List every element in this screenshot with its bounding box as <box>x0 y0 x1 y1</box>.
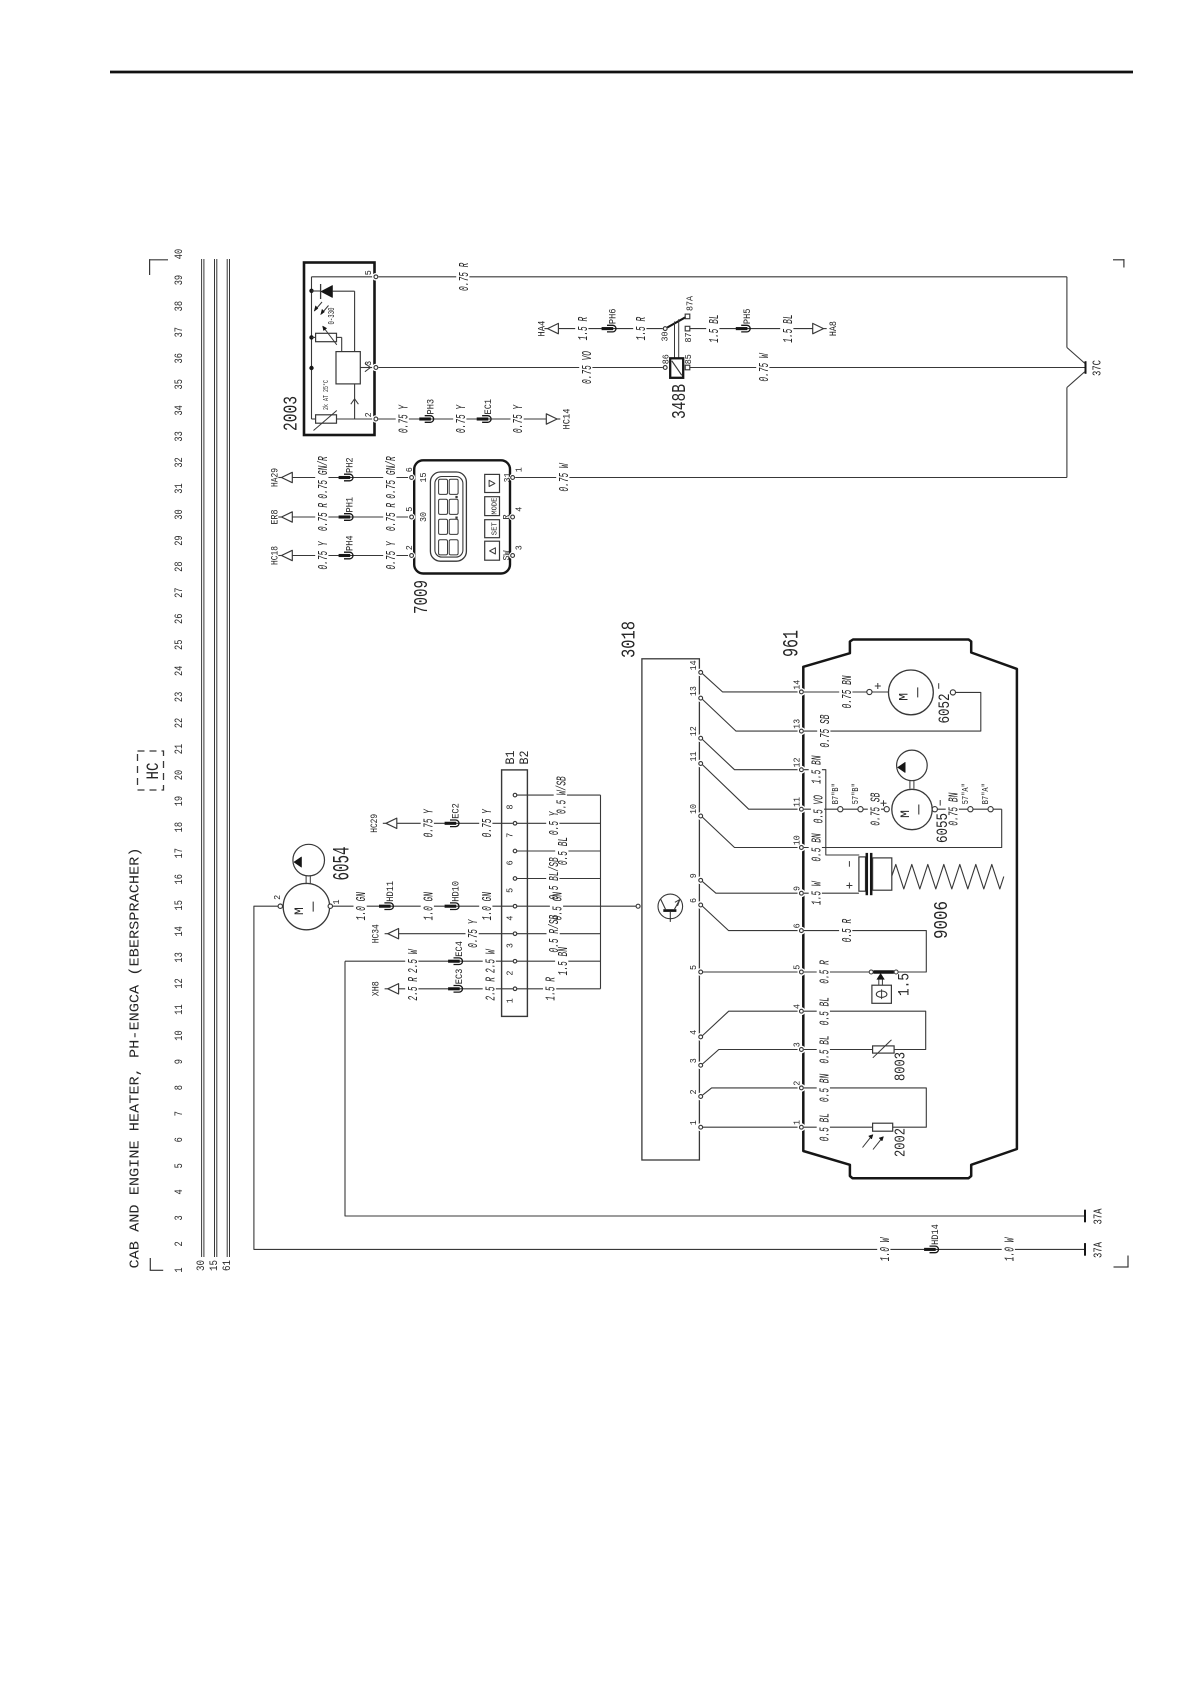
bus 15 feed line <box>215 259 217 1257</box>
connector PH1 <box>344 514 353 521</box>
svg-text:0.5 BN: 0.5 BN <box>809 833 825 862</box>
wire 961:12 to glow plug 9006 minus <box>804 770 859 855</box>
node 37C collector <box>1067 277 1086 478</box>
961 pin 12 <box>798 766 806 774</box>
svg-text:PH2: PH2 <box>345 457 357 473</box>
heater unit 6054 motor <box>283 883 329 929</box>
relay 348B <box>663 314 690 378</box>
wire loop to 961:10 <box>804 809 1002 847</box>
bus 61 feed line <box>227 259 229 1257</box>
svg-text:B2: B2 <box>517 751 532 765</box>
svg-text:11: 11 <box>792 797 803 807</box>
svg-text:EC4: EC4 <box>454 941 466 957</box>
2003 pin 3 wire with chevron <box>360 363 373 371</box>
961 pin 10 <box>798 844 806 852</box>
svg-text:0.75 SB: 0.75 SB <box>818 715 834 748</box>
svg-text:0-330: 0-330 <box>327 308 337 325</box>
svg-text:39: 39 <box>174 275 186 285</box>
terminal B7*A* <box>988 807 993 812</box>
svg-text:1: 1 <box>331 899 342 904</box>
6052 minus terminal <box>938 683 940 689</box>
svg-text:HC: HC <box>144 763 164 780</box>
svg-text:2003: 2003 <box>281 396 303 431</box>
wire 1.5 BL from relay 87 to HA8 <box>690 328 813 330</box>
svg-text:11: 11 <box>174 1004 186 1015</box>
svg-text:13: 13 <box>174 952 186 962</box>
wire 3018:13 to 961:13 <box>703 700 799 732</box>
svg-text:0.75 BN: 0.75 BN <box>840 675 856 708</box>
svg-text:B7"B": B7"B" <box>831 783 841 804</box>
3018 pin 1 <box>697 1123 705 1131</box>
svg-text:1.0 W: 1.0 W <box>1002 1237 1018 1261</box>
arrow HA29 incoming <box>278 477 281 479</box>
svg-text:2: 2 <box>363 412 374 417</box>
terminal 37A lower <box>1084 1243 1086 1256</box>
svg-text:9: 9 <box>688 873 699 878</box>
2003 regulator block <box>336 352 360 384</box>
wire 961:14 to motor 6052 plus <box>804 691 867 693</box>
svg-text:7009: 7009 <box>411 580 433 614</box>
svg-text:86: 86 <box>660 354 671 364</box>
svg-text:15: 15 <box>174 900 186 910</box>
svg-text:0.5 VO: 0.5 VO <box>812 795 828 824</box>
wire 0.75 W from relay 85 to node 37C <box>690 367 1085 369</box>
svg-text:0.5 Y: 0.5 Y <box>547 811 563 835</box>
svg-text:6: 6 <box>688 898 699 903</box>
svg-text:5: 5 <box>792 965 803 970</box>
B1/B2 pin 1 <box>513 987 517 991</box>
svg-text:0.75 Y: 0.75 Y <box>466 919 482 948</box>
timer unit 7009 box <box>414 460 510 573</box>
svg-text:8: 8 <box>504 804 515 809</box>
connector EC1 <box>482 416 491 423</box>
2003 pin 5 <box>372 273 380 281</box>
svg-text:26: 26 <box>174 614 186 624</box>
svg-text:30: 30 <box>660 331 671 341</box>
svg-text:21: 21 <box>174 743 186 754</box>
9006 heating element spring <box>892 864 1004 889</box>
svg-text:6: 6 <box>404 467 415 472</box>
7009 pin 4 (R) <box>509 513 516 520</box>
svg-text:87: 87 <box>683 333 694 343</box>
svg-text:EC2: EC2 <box>451 803 463 819</box>
svg-text:0.75 Y: 0.75 Y <box>396 404 412 433</box>
heater unit 6054 pump <box>293 844 325 876</box>
connector HD14 <box>930 1246 939 1253</box>
svg-text:B7"A": B7"A" <box>981 783 991 804</box>
svg-text:0.5 R/SB: 0.5 R/SB <box>547 915 563 953</box>
svg-text:1.5 BN: 1.5 BN <box>556 947 572 976</box>
B1/B2 pin 8 <box>513 793 517 797</box>
svg-text:4: 4 <box>792 1004 803 1009</box>
svg-text:22: 22 <box>174 718 186 728</box>
svg-text:6: 6 <box>504 860 515 865</box>
svg-text:1: 1 <box>688 1120 699 1125</box>
svg-text:0.5 W/SB: 0.5 W/SB <box>554 776 570 814</box>
svg-text:5: 5 <box>174 1163 186 1168</box>
svg-text:7: 7 <box>504 833 515 838</box>
wire 0.75 VO from 2003:3 to relay 86 <box>379 367 663 369</box>
svg-text:24: 24 <box>174 665 186 676</box>
wire 0.75 R ER8 to 7009:5 <box>292 516 409 518</box>
wire 3018:14 to 961:14 <box>703 674 799 692</box>
svg-text:2: 2 <box>174 1241 186 1246</box>
thermistor 2k in 2003 <box>312 411 374 431</box>
svg-text:9006: 9006 <box>931 901 953 939</box>
svg-text:1.5 R: 1.5 R <box>576 316 592 340</box>
node HC dashed box <box>138 751 164 790</box>
wire 961:5 to fuse <box>804 971 869 973</box>
glow plug 9006 <box>846 853 891 895</box>
svg-text:0.75 GN/R: 0.75 GN/R <box>316 456 332 499</box>
svg-text:0.5 R: 0.5 R <box>840 918 856 942</box>
svg-text:0.5 BN: 0.5 BN <box>817 1073 833 1102</box>
B1/B2 pin 3 <box>513 932 517 936</box>
terminal 37A upper <box>1084 1210 1086 1223</box>
svg-text:CAB AND ENGINE HEATER, PH-ENGC: CAB AND ENGINE HEATER, PH-ENGCA (EBERSPR… <box>128 848 144 1269</box>
arrow HA8 outgoing <box>824 328 827 330</box>
svg-text:HA8: HA8 <box>828 321 840 336</box>
6055 plus terminal <box>884 807 889 812</box>
wire 961:4 loop to 8003 <box>804 1011 926 1049</box>
3018 pin 11 <box>697 760 705 768</box>
svg-text:10: 10 <box>688 804 699 814</box>
svg-text:1.5 R: 1.5 R <box>544 977 560 1001</box>
svg-text:HD11: HD11 <box>385 881 397 902</box>
temperature sensor 8003 <box>873 1040 895 1058</box>
svg-text:0.75 Y: 0.75 Y <box>316 540 332 569</box>
961 pin 9 <box>798 889 806 897</box>
svg-text:31: 31 <box>174 483 186 494</box>
3018 pin 6 <box>697 901 705 909</box>
svg-text:4: 4 <box>514 507 525 512</box>
svg-text:B1: B1 <box>503 750 518 764</box>
svg-text:9: 9 <box>792 886 803 891</box>
fuse 1.5 A <box>869 970 898 974</box>
7009 button down <box>485 474 500 492</box>
svg-text:1.0 GN: 1.0 GN <box>421 892 437 921</box>
svg-text:5: 5 <box>504 888 515 893</box>
wire 3018:11 to 961:11 <box>703 765 799 809</box>
arrow ER8 incoming <box>278 516 281 518</box>
svg-text:HC14: HC14 <box>562 409 574 430</box>
7009 pin 1 (31) <box>509 474 516 481</box>
wire row B5 to bus <box>517 878 601 880</box>
wire 3018:12 to 961:12 <box>703 740 799 770</box>
svg-text:0.75 W: 0.75 W <box>557 462 573 491</box>
svg-text:11: 11 <box>688 751 699 761</box>
2003 pin 5 internal wire <box>312 276 374 278</box>
svg-text:XH8: XH8 <box>371 981 383 996</box>
2003 pin 3 <box>372 364 380 372</box>
arrow HA4 incoming <box>544 328 547 330</box>
svg-text:2: 2 <box>272 895 283 900</box>
B1/B2 pin 2 <box>513 959 517 963</box>
svg-text:0.5 BL: 0.5 BL <box>817 1113 833 1141</box>
svg-text:PH3: PH3 <box>425 399 437 415</box>
svg-text:6: 6 <box>174 1137 186 1142</box>
3018 pin 12 <box>697 734 705 742</box>
961 pin 11 <box>798 805 806 813</box>
7009 button up <box>485 541 500 560</box>
svg-text:10: 10 <box>792 835 803 845</box>
6055 coupling <box>909 781 911 789</box>
svg-text:1: 1 <box>514 467 525 472</box>
svg-text:PH4: PH4 <box>345 535 357 551</box>
svg-text:PH1: PH1 <box>345 497 357 513</box>
svg-text:28: 28 <box>174 561 186 571</box>
bus line right of B1/B2 <box>600 795 602 989</box>
svg-text:EC3: EC3 <box>454 969 466 985</box>
wire 961:11 to 6055 plus <box>804 808 884 810</box>
svg-text:23: 23 <box>174 692 186 702</box>
svg-text:2: 2 <box>792 1080 803 1085</box>
svg-text:1.5 R: 1.5 R <box>634 316 650 340</box>
LED indicator in 2003 <box>312 284 355 352</box>
2003 pin 2 <box>372 415 380 423</box>
svg-text:85: 85 <box>683 354 694 364</box>
wire row B2 from ground run <box>345 960 513 962</box>
svg-text:EC1: EC1 <box>483 399 495 415</box>
961 pin 4 <box>798 1007 806 1015</box>
6055 minus terminal <box>932 807 937 812</box>
svg-text:ER8: ER8 <box>270 510 282 525</box>
svg-text:0.5 R: 0.5 R <box>817 960 833 984</box>
flame sensor 2002 <box>863 1123 893 1149</box>
wire 6052 minus loop to 961:13 <box>804 692 981 731</box>
wire 961:3 to 8003 <box>804 1049 873 1051</box>
svg-text:3: 3 <box>174 1215 186 1220</box>
connector PH3 <box>425 416 434 423</box>
2003 junction dots <box>309 289 313 293</box>
svg-text:19: 19 <box>174 796 186 806</box>
svg-text:4: 4 <box>688 1030 699 1035</box>
3018 pin 9 <box>697 876 705 884</box>
7009 display bezel <box>430 472 466 561</box>
svg-text:2.5 W: 2.5 W <box>406 949 422 973</box>
2003 internal rail wire <box>311 277 313 419</box>
B1/B2 pin 5 <box>513 877 517 881</box>
961 pin 13 <box>798 727 806 735</box>
svg-text:2: 2 <box>504 970 515 975</box>
7009 pin 5 (30) <box>408 513 415 520</box>
svg-text:HD10: HD10 <box>451 881 463 902</box>
svg-text:6: 6 <box>792 923 803 928</box>
svg-text:0.75 R: 0.75 R <box>316 503 332 532</box>
svg-text:6052: 6052 <box>936 694 954 724</box>
svg-text:40: 40 <box>174 249 186 259</box>
svg-text:17: 17 <box>174 848 186 858</box>
svg-text:HC29: HC29 <box>369 814 381 833</box>
6052 plus terminal <box>867 689 872 694</box>
wire 3018:6 to 961:6 <box>703 906 799 930</box>
svg-text:12: 12 <box>792 757 803 767</box>
svg-text:5: 5 <box>688 965 699 970</box>
svg-text:2.5 W: 2.5 W <box>483 949 499 973</box>
wire 3018:3 to 961:3 <box>703 1050 799 1064</box>
6054 coupling <box>305 876 307 884</box>
svg-text:0.75 SB: 0.75 SB <box>869 793 885 826</box>
wire 0.75 Y from 2003:2 to HC14 <box>379 418 547 420</box>
3018 pin 10 <box>697 812 705 820</box>
svg-text:9: 9 <box>174 1059 186 1064</box>
connector PH5 <box>741 325 750 332</box>
svg-text:14: 14 <box>174 926 186 937</box>
svg-text:10: 10 <box>174 1030 186 1040</box>
svg-text:1: 1 <box>174 1267 186 1273</box>
wire 3018:5 to 961:5 <box>703 971 799 973</box>
svg-text:2: 2 <box>404 545 415 550</box>
svg-text:0.75 Y: 0.75 Y <box>480 808 496 837</box>
connector PH4 <box>344 552 353 559</box>
7009 button SET <box>485 520 500 538</box>
wire 3018:4 to 961:4 <box>703 1011 799 1035</box>
svg-text:27: 27 <box>174 588 186 598</box>
svg-text:13: 13 <box>792 719 803 729</box>
wire 0.75 Y HC18 to 7009:2 <box>292 555 409 557</box>
svg-text:2k AT 25°C: 2k AT 25°C <box>322 380 331 410</box>
motor 6052 <box>872 691 889 693</box>
wire 961:6 loop to fuse <box>804 931 926 972</box>
B1/B2 pin 7 <box>513 822 517 826</box>
3018 pin 5 <box>697 968 705 976</box>
wire 1.0 W from 6054:2 to 37A <box>254 906 1084 1249</box>
svg-text:1.0 W: 1.0 W <box>878 1237 894 1261</box>
svg-text:1.5 W: 1.5 W <box>809 881 825 905</box>
motor 6055 <box>892 789 932 829</box>
thermal sensor theta <box>872 973 892 1003</box>
svg-text:3: 3 <box>504 943 515 948</box>
7009 pin 3 (SW) <box>509 552 516 559</box>
svg-text:33: 33 <box>174 431 186 441</box>
svg-text:M: M <box>897 693 912 701</box>
svg-text:30: 30 <box>196 1260 208 1271</box>
7009 button MODE <box>485 497 500 516</box>
svg-text:57"A": 57"A" <box>961 783 971 804</box>
7009 pin 6 (15) <box>408 474 415 481</box>
svg-text:30: 30 <box>174 509 186 519</box>
arrow HC14 outgoing <box>557 418 560 420</box>
svg-text:0.75 R: 0.75 R <box>384 503 400 532</box>
svg-text:2: 2 <box>688 1089 699 1094</box>
svg-text:1.5 BL: 1.5 BL <box>707 314 723 342</box>
wire 0.75 R from 2003:5 <box>379 276 1067 278</box>
svg-text:0.5 BL: 0.5 BL <box>817 997 833 1025</box>
svg-text:R: R <box>501 514 512 519</box>
wire 961:1 to 2002 <box>804 1126 873 1128</box>
svg-text:37A: 37A <box>1093 1208 1106 1224</box>
svg-text:2.5 R: 2.5 R <box>406 977 422 1001</box>
wire row B8 to bus <box>517 794 601 796</box>
terminal 57*A* <box>968 807 973 812</box>
frame corner marks <box>149 259 1129 1270</box>
svg-text:0.75 Y: 0.75 Y <box>511 404 527 433</box>
heater unit 961 outline <box>803 640 1017 1179</box>
wire row B3 HC34 <box>385 933 388 935</box>
wire 3018:1 to 961:1 <box>703 1126 799 1128</box>
bus 30 feed line <box>202 259 204 1257</box>
svg-text:7: 7 <box>174 1111 186 1116</box>
svg-text:5: 5 <box>404 507 415 512</box>
svg-text:5: 5 <box>363 270 374 275</box>
B1/B2 pin 4 <box>513 904 517 908</box>
svg-text:SW: SW <box>501 550 512 560</box>
wire row B6 to bus <box>517 850 601 852</box>
2003 lower output with chevron <box>351 384 359 419</box>
svg-text:29: 29 <box>174 535 186 545</box>
3018 pin 13 <box>697 694 705 702</box>
svg-text:38: 38 <box>174 301 186 311</box>
svg-text:1.5 BL: 1.5 BL <box>781 314 797 342</box>
wire 1.5 R from HA4 to relay 30 <box>558 328 662 330</box>
svg-text:0.75 VO: 0.75 VO <box>580 351 596 384</box>
svg-text:8: 8 <box>174 1085 186 1090</box>
pump of 6055 <box>897 750 928 781</box>
svg-text:8003: 8003 <box>893 1052 910 1081</box>
svg-text:3: 3 <box>514 545 525 550</box>
svg-text:3: 3 <box>792 1042 803 1047</box>
svg-text:13: 13 <box>688 686 699 696</box>
svg-text:0.75 R: 0.75 R <box>457 262 473 291</box>
961 pin 1 <box>798 1123 806 1131</box>
wire 0.75 GN/R HA29 to 7009:6 <box>292 477 409 479</box>
svg-text:M: M <box>292 907 307 915</box>
wire 3018:2 to 961:2 <box>703 1088 799 1095</box>
svg-text:1.5 BN: 1.5 BN <box>809 755 825 784</box>
svg-text:57"B": 57"B" <box>851 783 861 804</box>
wire 961:2 loop to 2002 <box>804 1088 926 1127</box>
connector B1/B2 block <box>502 770 528 1017</box>
svg-text:4: 4 <box>504 915 515 920</box>
svg-text:M: M <box>898 810 913 818</box>
svg-text:961: 961 <box>780 630 805 657</box>
3018 pin 2 <box>697 1093 705 1101</box>
control unit 3018 box <box>642 659 700 1160</box>
3018 pin 14 <box>697 669 705 677</box>
svg-text:1.0 GN: 1.0 GN <box>480 892 496 921</box>
wire row B1 XH8 <box>385 988 388 990</box>
961 pin 3 <box>798 1046 806 1054</box>
svg-text:1.0 GN: 1.0 GN <box>354 892 370 921</box>
961 pin 2 <box>798 1084 806 1092</box>
svg-text:1: 1 <box>504 998 515 1003</box>
961 pin 5 <box>798 968 806 976</box>
svg-text:PH5: PH5 <box>742 309 754 325</box>
terminal to 3018 transistor <box>636 904 640 908</box>
B1/B2 pin 6 <box>513 849 517 853</box>
wire row B7 HC29 <box>383 822 386 824</box>
terminal B7*B* <box>838 807 843 812</box>
transistor inside 3018 <box>658 894 683 922</box>
svg-text:30: 30 <box>418 512 429 522</box>
961 pin 6 <box>798 927 806 935</box>
control unit 2003 box <box>304 263 375 436</box>
svg-text:18: 18 <box>174 822 186 832</box>
wire row B4 from 6054:1 through HD11 HD10 <box>333 905 513 907</box>
wire 6055 minus to terminals <box>937 808 1001 810</box>
potentiometer 0-330 in 2003 <box>312 326 342 352</box>
svg-text:0.75 Y: 0.75 Y <box>384 540 400 569</box>
svg-text:0.75 W: 0.75 W <box>757 352 773 381</box>
svg-text:2.5 R: 2.5 R <box>483 977 499 1001</box>
svg-text:HC18: HC18 <box>270 546 282 565</box>
svg-text:HD14: HD14 <box>930 1224 942 1245</box>
svg-text:2002: 2002 <box>893 1128 910 1157</box>
svg-text:37A: 37A <box>1093 1242 1106 1258</box>
6054 terminal 2 <box>278 904 282 908</box>
svg-text:15: 15 <box>418 472 429 482</box>
svg-text:0.75 Y: 0.75 Y <box>454 404 470 433</box>
